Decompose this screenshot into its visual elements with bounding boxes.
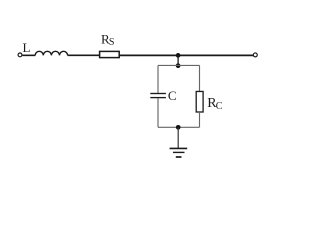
right terminal (253, 53, 257, 57)
resistor R_S (100, 32, 120, 58)
wire (junction down to parallel network) (177, 55, 179, 65)
node junction on main wire (176, 53, 181, 58)
wire (left terminal to inductor) (22, 54, 35, 56)
wire (right branch lower, R_C to bottom) (199, 112, 201, 127)
wire (inductor to R_S) (68, 54, 100, 56)
wire (junction to ground) (177, 127, 179, 148)
svg-text:L: L (23, 40, 31, 55)
wire (left branch lower, capacitor to bottom) (157, 98, 159, 127)
svg-text:C: C (216, 101, 223, 112)
ground (170, 148, 188, 157)
node junction at top of parallel network (176, 63, 181, 68)
left terminal (18, 53, 22, 57)
resistor R_C (196, 91, 223, 112)
wire (R_S to right terminal) (119, 54, 253, 56)
inductor L (23, 40, 68, 55)
wire (left branch upper, to capacitor) (157, 65, 159, 93)
capacitor C (150, 88, 176, 103)
wire (right branch upper, to R_C) (199, 65, 201, 91)
svg-text:S: S (109, 37, 115, 48)
node junction at bottom of parallel network (176, 125, 181, 130)
wire (top of parallel loop) (158, 64, 200, 66)
wire (bottom of parallel loop) (158, 126, 200, 128)
svg-text:C: C (168, 88, 177, 103)
